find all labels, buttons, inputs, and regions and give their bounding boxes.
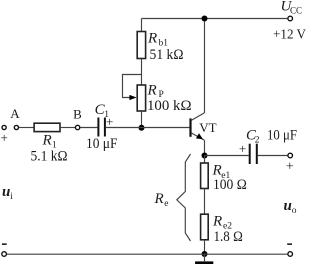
svg-text:51 kΩ: 51 kΩ xyxy=(150,47,184,63)
svg-text:i: i xyxy=(10,192,13,202)
svg-text:A: A xyxy=(10,106,20,121)
svg-text:R: R xyxy=(154,191,164,207)
svg-text:1.8 Ω: 1.8 Ω xyxy=(214,229,243,245)
svg-text:R: R xyxy=(147,83,157,99)
svg-text:+12 V: +12 V xyxy=(273,28,306,43)
svg-text:+: + xyxy=(1,130,8,145)
svg-text:+: + xyxy=(286,160,294,175)
svg-text:10 μF: 10 μF xyxy=(267,128,297,144)
svg-text:+: + xyxy=(106,114,113,129)
svg-text:+: + xyxy=(239,141,246,156)
svg-text:100 kΩ: 100 kΩ xyxy=(147,98,192,114)
svg-text:u: u xyxy=(2,184,10,200)
svg-text:5.1 kΩ: 5.1 kΩ xyxy=(31,148,68,164)
svg-text:u: u xyxy=(284,198,292,214)
svg-text:10 μF: 10 μF xyxy=(86,136,118,152)
svg-text:o: o xyxy=(292,206,297,216)
svg-text:e: e xyxy=(164,199,168,209)
svg-text:B: B xyxy=(73,107,82,122)
svg-text:CC: CC xyxy=(290,6,302,16)
svg-text:R: R xyxy=(212,214,222,230)
svg-text:VT: VT xyxy=(199,120,216,135)
svg-text:2: 2 xyxy=(255,136,260,146)
svg-text:R: R xyxy=(42,133,52,149)
svg-text:100 Ω: 100 Ω xyxy=(213,177,247,193)
svg-text:R: R xyxy=(147,31,157,47)
